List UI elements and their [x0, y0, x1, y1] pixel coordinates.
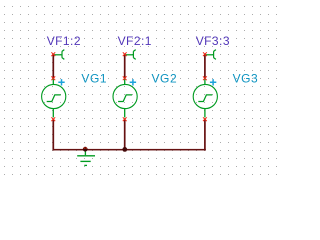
svg-text:VF1:2: VF1:2	[47, 34, 81, 48]
svg-text:VF2:1: VF2:1	[118, 34, 152, 48]
svg-text:VF3:3: VF3:3	[196, 34, 230, 48]
svg-text:VG3: VG3	[233, 72, 259, 86]
svg-text:VG2: VG2	[152, 72, 178, 86]
svg-text:VG1: VG1	[81, 72, 107, 86]
